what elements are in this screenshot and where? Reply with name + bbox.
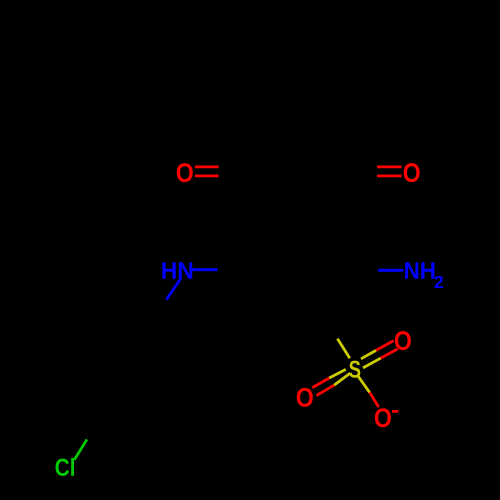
carbonyl O2 (right ketone oxygen): [404, 163, 420, 182]
bond C4'-Cl12 (green half): [74, 439, 87, 459]
bond N3-C1' to chlorophenyl (blue half): [166, 279, 180, 300]
bond S7=O9 double (top-right), upper line red half: [376, 341, 394, 351]
sulfonate O10 label (bottom-left): [297, 388, 313, 407]
bond S7=O9 double (top-right), lower line red half: [381, 349, 398, 358]
bond N3-C4 to ring (blue half): [192, 268, 218, 271]
bond S7=O9 double (top-right), upper line yellow half: [361, 350, 376, 358]
bond N3-C4 (black half toward ring carbon, hidden): [218, 268, 252, 271]
anthraquinone central quinone ring (black carbon bonds, hidden): [253, 133, 343, 210]
bond C6-N5 (black half, hidden): [345, 269, 378, 272]
sulfonate O11 anion label: [375, 408, 391, 427]
primary amine N5 label NH2: [405, 262, 434, 279]
bond C4'-Cl12 (black half toward phenyl, hidden): [87, 413, 109, 440]
bond C6-N5 (blue half): [378, 269, 403, 272]
bond C9=O1 double (red half), upper line: [195, 165, 219, 168]
secondary amine N3 label HN: [162, 262, 192, 279]
bond C8-S7 (yellow half): [337, 339, 349, 359]
bond S7=O10 double (bottom-left), lower line red half: [316, 385, 334, 395]
bond S7=O10 double (bottom-left), upper line yellow half: [329, 369, 346, 378]
carbonyl O1 (left ketone oxygen): [177, 163, 193, 182]
amine N5 subscript 2: [435, 276, 443, 288]
sulfonate S7 label: [349, 361, 360, 378]
bond S7-O11 single (red half): [370, 392, 379, 407]
sulfonate O9 label (top-right): [395, 331, 411, 350]
chlorine Cl12 label: [56, 458, 74, 476]
bond N3-C1' (black half, hidden): [149, 300, 167, 330]
bond C9=O1 double (red half), lower line: [195, 174, 219, 177]
bond S7-O11 single (yellow half): [358, 376, 370, 393]
bond C10=O2 double (red half), upper line: [377, 165, 402, 168]
bond S7=O10 double (bottom-left), lower line yellow half: [334, 373, 350, 385]
chlorophenyl ring (black carbon bonds, hidden): [83, 330, 175, 413]
anthraquinone bottom substituted ring (black carbon bonds, hidden): [251, 210, 345, 309]
bond C9=O1 double (black half toward C9, hidden on black bg): [219, 165, 253, 168]
bond C8-S7 (black half toward ring, hidden): [320, 309, 337, 339]
anthraquinone top benzo ring (black carbon bonds, hidden on black bg): [253, 56, 343, 133]
bond C10=O2 double (black half toward C10, hidden): [342, 165, 377, 168]
bond C10=O2 double (red half), lower line: [377, 174, 402, 177]
bond S7=O10 double (bottom-left), upper line red half: [312, 378, 329, 388]
O11 negative charge minus sign: [392, 410, 398, 413]
bond S7=O9 double (top-right), lower line yellow half: [363, 358, 381, 368]
